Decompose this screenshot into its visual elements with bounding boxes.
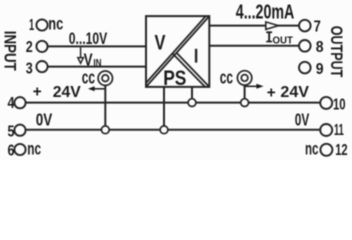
svg-text:11: 11: [334, 122, 344, 139]
svg-text:12: 12: [335, 142, 347, 159]
wire +24V rail: [25, 102, 320, 104]
wire 0V rail: [25, 129, 320, 131]
svg-text:6: 6: [8, 142, 15, 159]
wire left cc to 0V node: [104, 85, 106, 130]
svg-text:0...10V: 0...10V: [69, 29, 108, 48]
svg-text:4...20mA: 4...20mA: [236, 2, 295, 24]
svg-text:V: V: [155, 31, 166, 54]
pin 10 terminal: [320, 97, 332, 109]
node 0V left: [101, 126, 109, 134]
svg-text:2: 2: [26, 39, 33, 56]
PS section double divider: [177, 53, 210, 87]
pin 12 terminal: [320, 144, 332, 156]
svg-text:OUTPUT: OUTPUT: [327, 26, 345, 78]
wire box bottom to +24V node: [191, 87, 193, 103]
pin 4 terminal: [14, 97, 25, 108]
svg-text:+: +: [33, 83, 42, 100]
cc arrow left: [94, 88, 106, 90]
pin 5 terminal: [14, 125, 25, 136]
wire pin3 to box: [48, 66, 146, 68]
pin 6 terminal: [14, 144, 25, 155]
svg-text:PS: PS: [163, 65, 186, 90]
isolation barrier double diagonal: [146, 16, 209, 87]
cc coax symbol left: [98, 71, 112, 85]
svg-text:+: +: [267, 85, 276, 102]
svg-text:24V: 24V: [53, 84, 81, 101]
node 0V center: [160, 126, 168, 134]
svg-text:24V: 24V: [280, 84, 309, 101]
Vin down arrow: [78, 47, 84, 63]
pin 8 terminal: [299, 40, 311, 52]
pin 11 terminal: [320, 124, 332, 136]
wire pin2 to box: [48, 45, 146, 47]
svg-text:4: 4: [8, 95, 15, 112]
pin 3 terminal: [36, 61, 47, 72]
output current arrow: [266, 22, 279, 30]
svg-text:7: 7: [314, 18, 321, 35]
wire box to pin8: [209, 45, 299, 47]
cc arrow right: [245, 85, 257, 87]
svg-text:1: 1: [29, 17, 34, 34]
svg-text:0V: 0V: [295, 110, 310, 130]
label Iout: [266, 31, 272, 42]
svg-text:3: 3: [26, 60, 33, 77]
svg-text:nc: nc: [48, 14, 63, 34]
node +24V center: [188, 99, 196, 107]
svg-text:INPUT: INPUT: [0, 31, 18, 71]
signal converter U1: [146, 16, 209, 87]
pin 9 terminal: [299, 62, 311, 74]
svg-text:9: 9: [316, 61, 324, 78]
svg-text:0V: 0V: [36, 109, 53, 129]
wire box to pin7: [209, 25, 299, 27]
svg-text:8: 8: [316, 39, 324, 56]
svg-text:cc: cc: [82, 66, 95, 87]
svg-text:nc: nc: [27, 139, 41, 159]
svg-text:cc: cc: [220, 66, 233, 87]
label I output section: [195, 49, 197, 63]
svg-text:10: 10: [333, 97, 346, 114]
wire right cc to +24V node: [244, 85, 246, 102]
pin 7 terminal: [299, 20, 311, 32]
cc coax symbol right: [237, 71, 251, 85]
pin 1 terminal: [36, 19, 47, 30]
pin 2 terminal: [36, 41, 47, 52]
svg-text:5: 5: [8, 124, 15, 141]
svg-text:OUT: OUT: [273, 36, 294, 47]
node +24V right: [241, 99, 249, 107]
svg-text:nc: nc: [305, 138, 319, 158]
wire box bottom to 0V node: [163, 87, 165, 130]
